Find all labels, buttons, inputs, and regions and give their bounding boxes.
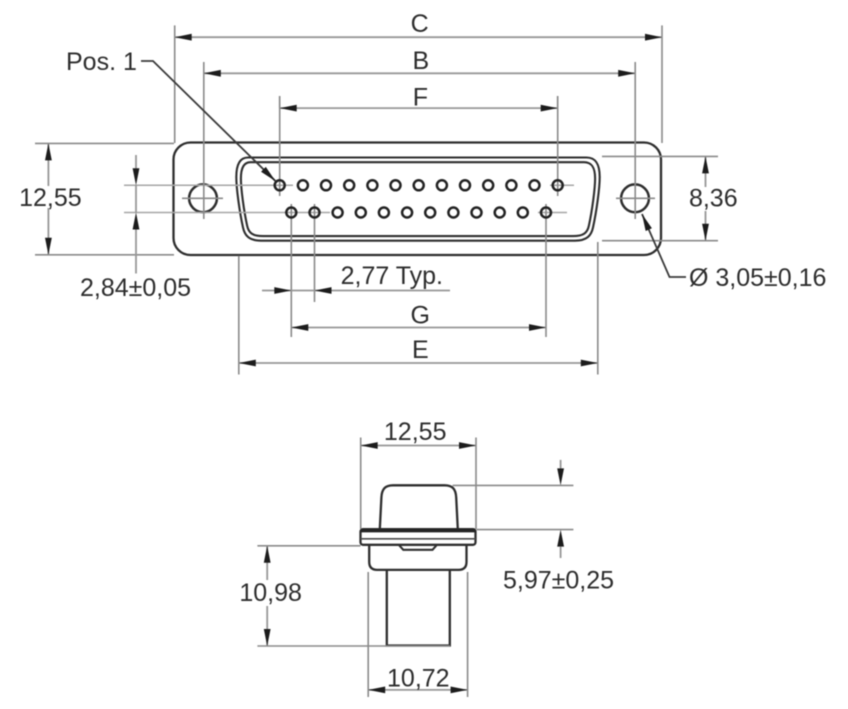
svg-text:C: C xyxy=(411,10,429,38)
svg-text:Ø 3,05±0,16: Ø 3,05±0,16 xyxy=(689,264,826,292)
svg-text:G: G xyxy=(410,302,429,330)
svg-text:12,55: 12,55 xyxy=(384,418,447,446)
shell (mating half) xyxy=(380,485,458,529)
dimension 10,98 xyxy=(239,546,450,646)
pins row 2 (14-25) xyxy=(286,208,551,218)
D-insert outer outline xyxy=(236,158,599,241)
dimension 5,97±0,25 xyxy=(453,460,614,595)
svg-text:8,36: 8,36 xyxy=(689,185,738,213)
dimension 10,72 xyxy=(368,572,467,697)
pin 25 centerline tick xyxy=(538,212,567,214)
svg-text:10,98: 10,98 xyxy=(239,579,302,607)
dimension G xyxy=(291,302,546,331)
row 1 centerline xyxy=(124,184,293,186)
pin 13 vertical centerline xyxy=(557,96,559,196)
right mounting hole horizontal centerline xyxy=(616,197,655,199)
svg-text:2,77 Typ.: 2,77 Typ. xyxy=(341,262,443,290)
pin 25 vertical centerline xyxy=(545,204,547,337)
flange top thick edge xyxy=(361,529,476,533)
dimension 2,84±0,05 xyxy=(80,155,191,302)
D-insert inner outline xyxy=(241,162,595,236)
pins row 1 (1-13) xyxy=(275,180,563,190)
right mounting hole xyxy=(621,184,649,212)
insulator body xyxy=(387,570,450,646)
dimension E xyxy=(239,242,598,375)
body block xyxy=(369,545,466,570)
flange plate xyxy=(361,529,476,545)
svg-text:E: E xyxy=(412,336,429,364)
pin 14 vertical centerline xyxy=(290,204,292,337)
leader Ø 3,05±0,16 xyxy=(639,213,827,292)
dimension 2,77 Typ. xyxy=(262,262,450,294)
dimension C xyxy=(175,10,662,143)
left mounting hole horizontal centerline xyxy=(182,197,223,199)
svg-text:Pos. 1: Pos. 1 xyxy=(66,48,137,76)
dimension F xyxy=(280,84,558,112)
svg-text:F: F xyxy=(413,84,428,112)
dimension 8,36 xyxy=(602,156,738,240)
dimension B xyxy=(204,47,635,219)
pin 13 centerline tick xyxy=(550,184,574,186)
pin 1 vertical centerline xyxy=(279,96,281,196)
svg-text:B: B xyxy=(413,47,430,75)
connector flange outline xyxy=(174,143,662,256)
row 2 centerline xyxy=(124,212,330,214)
svg-text:5,97±0,25: 5,97±0,25 xyxy=(503,567,614,595)
Pos. 1 label and leader xyxy=(66,48,278,184)
pin 15 vertical centerline xyxy=(314,204,316,302)
dimension 12,55 (side) xyxy=(361,418,476,529)
flange mid line xyxy=(361,538,476,540)
svg-text:12,55: 12,55 xyxy=(19,184,82,212)
dimension 12,55 (left) xyxy=(19,143,174,254)
svg-text:10,72: 10,72 xyxy=(387,665,450,693)
svg-text:2,84±0,05: 2,84±0,05 xyxy=(80,274,191,302)
left mounting hole xyxy=(189,184,217,212)
latch notch xyxy=(399,545,436,549)
